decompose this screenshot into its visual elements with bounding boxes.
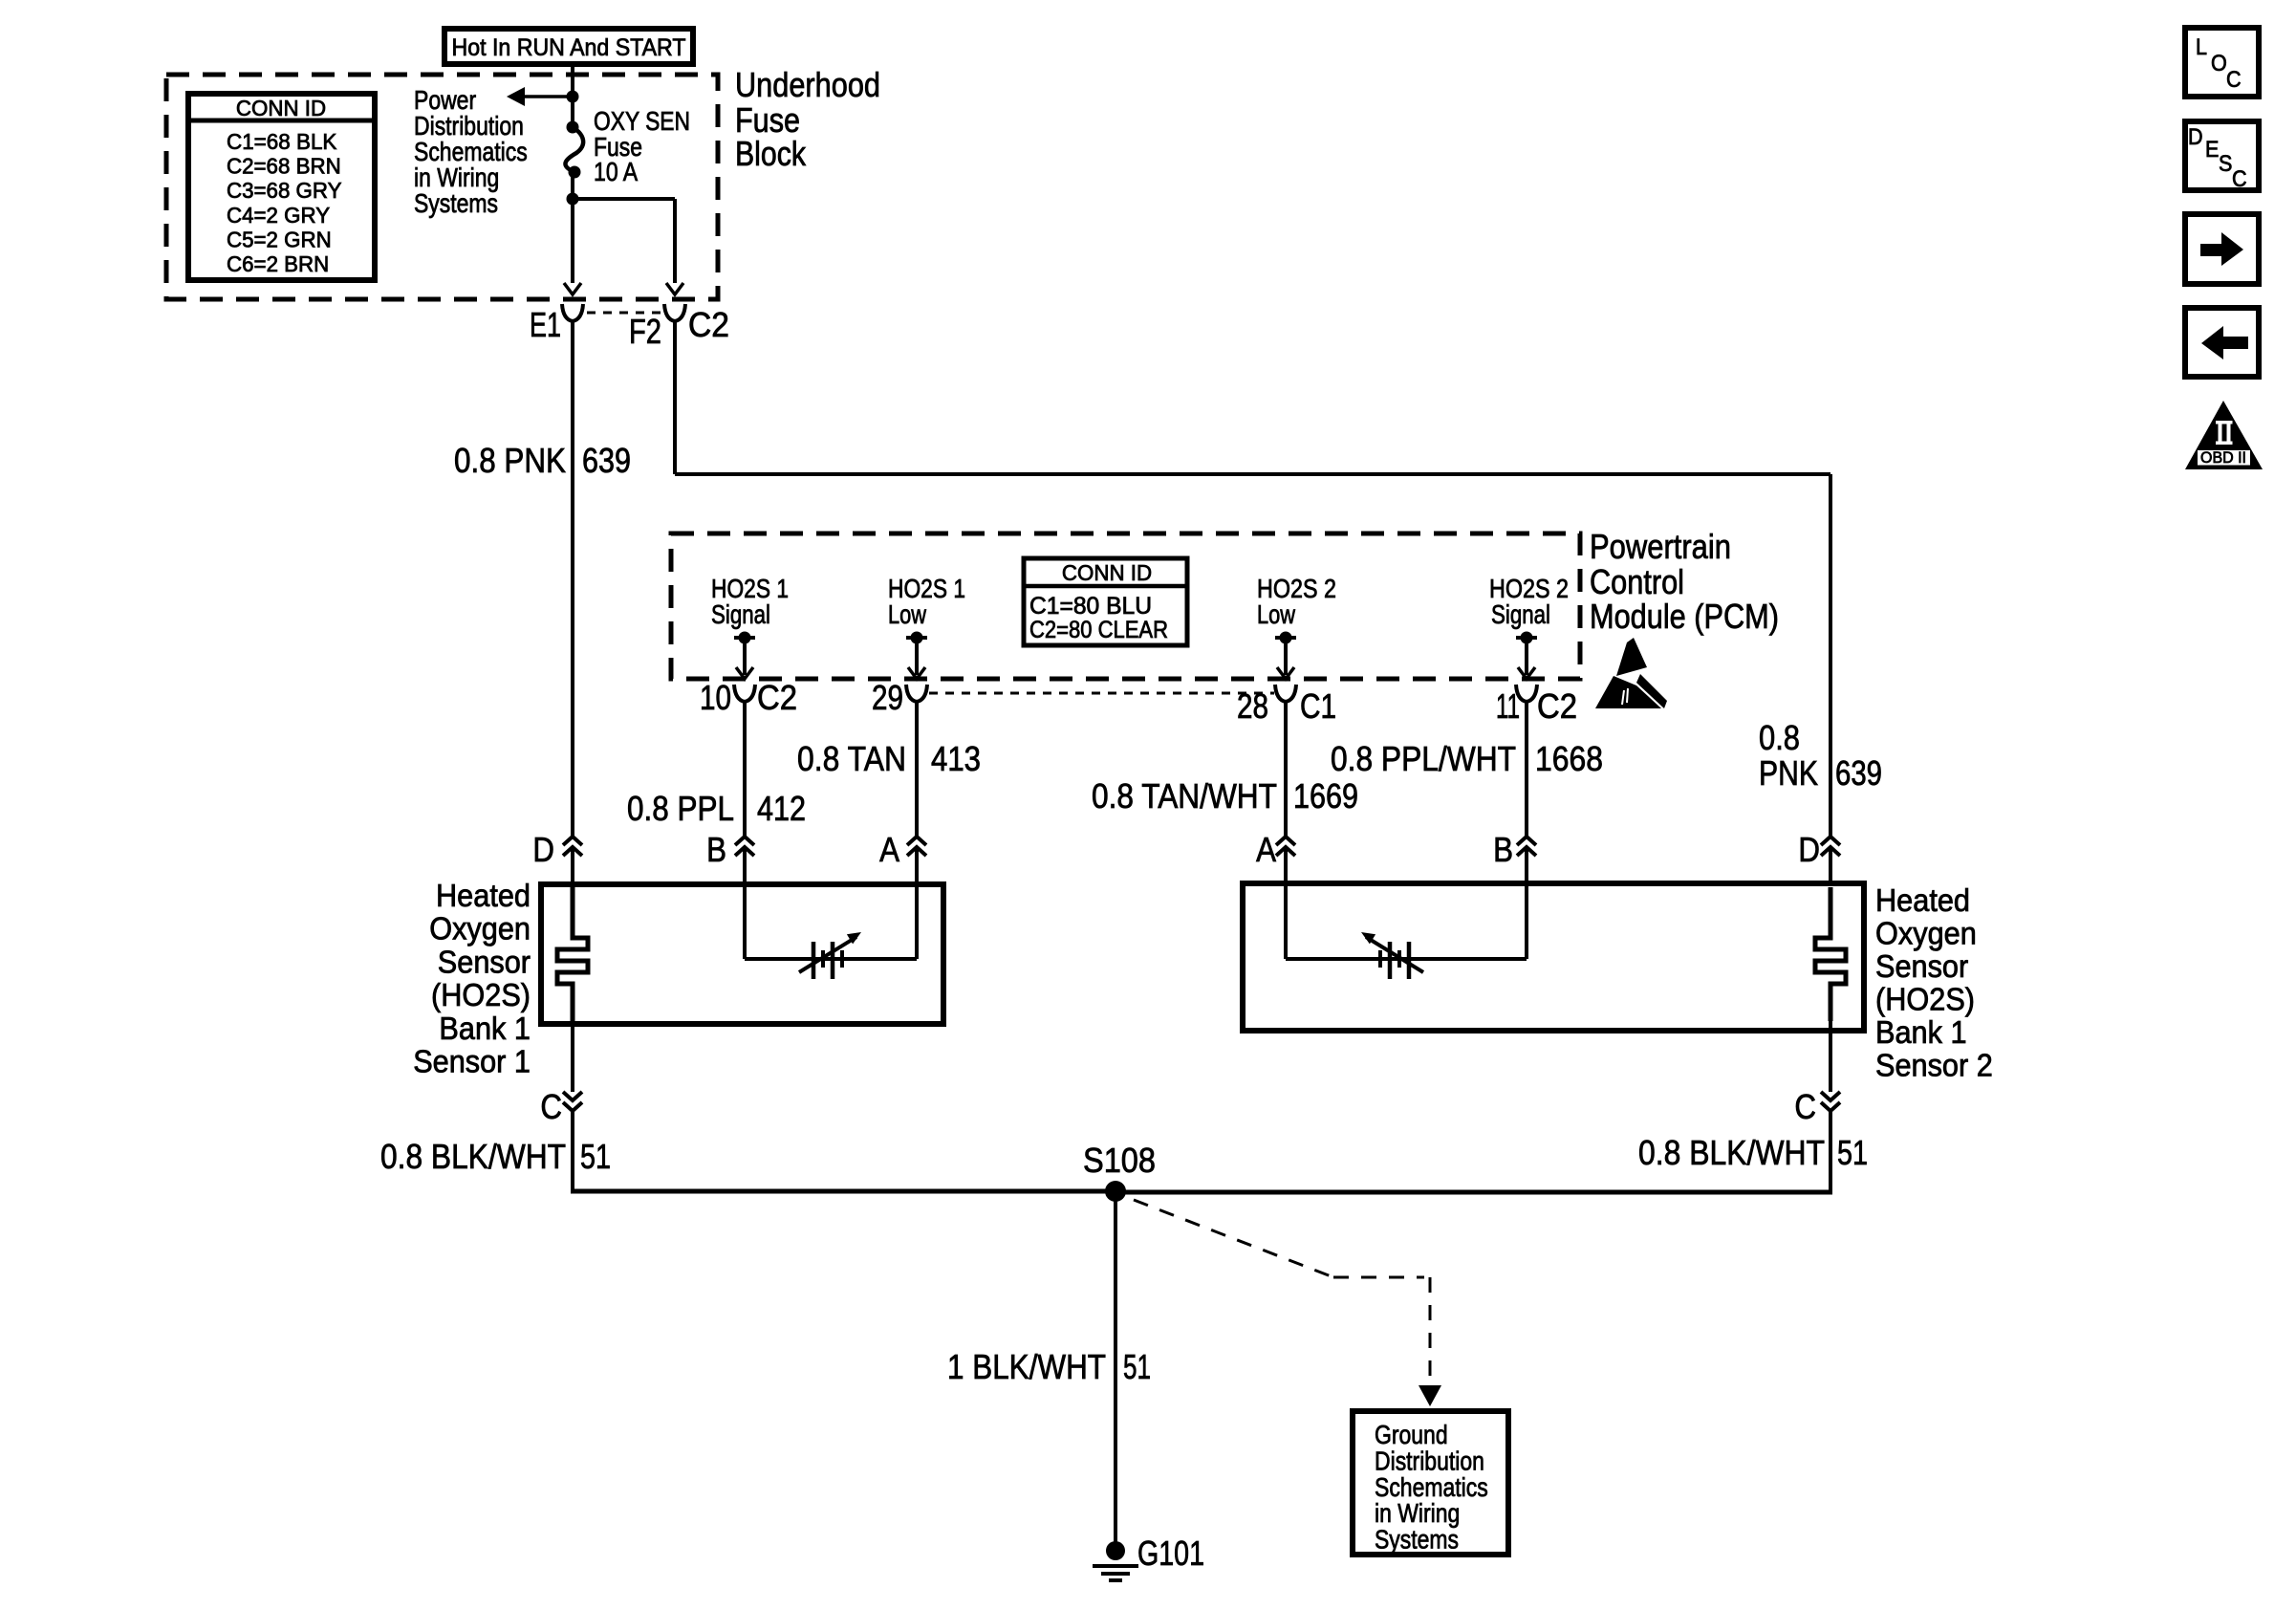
svg-text:A: A bbox=[879, 830, 899, 869]
svg-text:Low: Low bbox=[888, 599, 927, 629]
svg-text:51: 51 bbox=[1837, 1133, 1868, 1172]
svg-text:S108: S108 bbox=[1083, 1141, 1156, 1180]
svg-text:C: C bbox=[2226, 67, 2242, 93]
svg-text:E1: E1 bbox=[530, 305, 561, 344]
svg-text:Signal: Signal bbox=[1491, 599, 1550, 629]
svg-text:C2: C2 bbox=[688, 305, 729, 344]
svg-text:L: L bbox=[2196, 34, 2207, 60]
svg-text:C2: C2 bbox=[1537, 686, 1577, 726]
svg-text:11: 11 bbox=[1496, 686, 1520, 726]
svg-text:1 BLK/WHT: 1 BLK/WHT bbox=[947, 1347, 1106, 1386]
svg-text:(HO2S): (HO2S) bbox=[431, 977, 531, 1012]
svg-text:0.8 PNK: 0.8 PNK bbox=[454, 441, 566, 480]
svg-text:Bank 1: Bank 1 bbox=[1875, 1014, 1967, 1050]
svg-text:10: 10 bbox=[700, 678, 731, 717]
svg-text:C2: C2 bbox=[757, 678, 797, 717]
svg-text:639: 639 bbox=[582, 441, 631, 480]
svg-text:in Wiring: in Wiring bbox=[1375, 1498, 1460, 1528]
svg-text:Sensor 2: Sensor 2 bbox=[1875, 1048, 1993, 1083]
svg-text:OBD II: OBD II bbox=[2200, 448, 2246, 467]
svg-text:28: 28 bbox=[1237, 686, 1268, 726]
svg-text:Heated: Heated bbox=[1875, 882, 1970, 918]
svg-text:G101: G101 bbox=[1137, 1534, 1204, 1573]
svg-text:51: 51 bbox=[1123, 1347, 1151, 1386]
svg-text:Ground: Ground bbox=[1375, 1420, 1448, 1449]
svg-text:Systems: Systems bbox=[1375, 1525, 1459, 1555]
svg-text:Sensor: Sensor bbox=[438, 944, 531, 979]
svg-text:A: A bbox=[1256, 830, 1276, 869]
svg-text:CONN ID: CONN ID bbox=[1062, 560, 1152, 585]
svg-text:29: 29 bbox=[872, 678, 903, 717]
svg-text:C2=80 CLEAR: C2=80 CLEAR bbox=[1029, 617, 1168, 643]
svg-text:C3=68 GRY: C3=68 GRY bbox=[227, 178, 342, 203]
svg-text:10 A: 10 A bbox=[594, 157, 638, 186]
svg-text:(HO2S): (HO2S) bbox=[1875, 982, 1975, 1017]
svg-text:1668: 1668 bbox=[1535, 739, 1603, 778]
svg-text:C1=80 BLU: C1=80 BLU bbox=[1029, 593, 1152, 620]
svg-text:0.8 BLK/WHT: 0.8 BLK/WHT bbox=[1638, 1133, 1825, 1172]
svg-text:Oxygen: Oxygen bbox=[429, 911, 531, 946]
svg-text:C4=2 GRY: C4=2 GRY bbox=[227, 203, 330, 228]
svg-text:Control: Control bbox=[1590, 562, 1684, 601]
svg-text:Distribution: Distribution bbox=[1375, 1446, 1484, 1475]
svg-text:Systems: Systems bbox=[414, 188, 498, 218]
svg-text:C5=2 GRN: C5=2 GRN bbox=[227, 227, 332, 251]
svg-text:Heated: Heated bbox=[436, 878, 531, 913]
svg-text:D: D bbox=[1798, 830, 1820, 869]
svg-text:Sensor 1: Sensor 1 bbox=[413, 1044, 531, 1079]
svg-text:Underhood: Underhood bbox=[735, 65, 880, 104]
svg-text:0.8 PPL/WHT: 0.8 PPL/WHT bbox=[1331, 739, 1516, 778]
svg-text:C6=2 BRN: C6=2 BRN bbox=[227, 251, 329, 276]
svg-text:B: B bbox=[706, 830, 726, 869]
svg-text:1669: 1669 bbox=[1293, 776, 1358, 816]
svg-text:0.8 TAN: 0.8 TAN bbox=[797, 739, 906, 778]
svg-text:Powertrain: Powertrain bbox=[1590, 527, 1731, 566]
svg-text:C1: C1 bbox=[1300, 686, 1336, 726]
svg-text:0.8 TAN/WHT: 0.8 TAN/WHT bbox=[1092, 776, 1277, 816]
svg-text:51: 51 bbox=[580, 1137, 611, 1176]
svg-text:Low: Low bbox=[1257, 599, 1296, 629]
svg-text:413: 413 bbox=[931, 739, 981, 778]
svg-text:CONN ID: CONN ID bbox=[236, 96, 326, 120]
svg-text:412: 412 bbox=[757, 789, 806, 828]
svg-text:C: C bbox=[2232, 166, 2247, 192]
svg-text:C1=68 BLK: C1=68 BLK bbox=[227, 129, 337, 154]
svg-text:C: C bbox=[540, 1087, 562, 1126]
svg-text:Block: Block bbox=[735, 134, 807, 173]
svg-text:Module (PCM): Module (PCM) bbox=[1590, 597, 1779, 636]
svg-text:0.8 PPL: 0.8 PPL bbox=[627, 789, 734, 828]
svg-text:C2=68 BRN: C2=68 BRN bbox=[227, 154, 341, 179]
svg-text:Sensor: Sensor bbox=[1875, 948, 1968, 984]
svg-text:PNK: PNK bbox=[1759, 753, 1818, 793]
svg-text:Oxygen: Oxygen bbox=[1875, 916, 1977, 951]
svg-text:C: C bbox=[1794, 1087, 1816, 1126]
svg-text:0.8: 0.8 bbox=[1759, 718, 1800, 757]
svg-text:F2: F2 bbox=[629, 312, 661, 351]
svg-text:S: S bbox=[2219, 151, 2232, 177]
svg-text:E: E bbox=[2205, 137, 2219, 163]
svg-text:Schematics: Schematics bbox=[1375, 1472, 1488, 1502]
svg-text:0.8 BLK/WHT: 0.8 BLK/WHT bbox=[380, 1137, 566, 1176]
svg-text:Hot In RUN And START: Hot In RUN And START bbox=[452, 34, 686, 61]
svg-text:B: B bbox=[1493, 830, 1513, 869]
svg-text:O: O bbox=[2211, 51, 2227, 76]
svg-text:D: D bbox=[2188, 124, 2203, 150]
svg-text:639: 639 bbox=[1835, 753, 1882, 793]
svg-text:Signal: Signal bbox=[711, 599, 770, 629]
svg-text:Bank 1: Bank 1 bbox=[439, 1011, 531, 1046]
svg-text:D: D bbox=[532, 830, 554, 869]
